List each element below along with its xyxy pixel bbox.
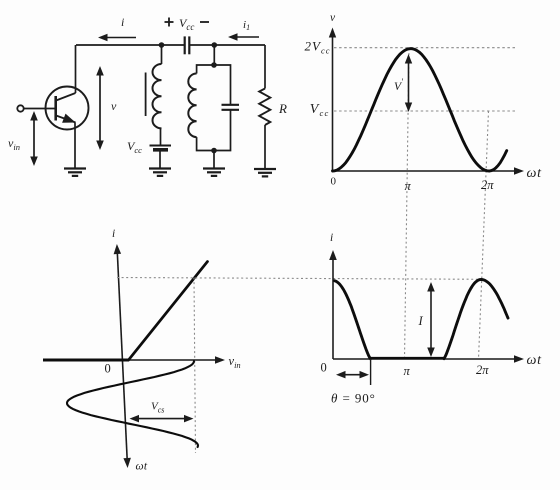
- wire choke to battery: [160, 128, 162, 145]
- dashed vertical pi line: [405, 49, 410, 360]
- axis v vertical: [332, 36, 334, 171]
- wire tank loop: [197, 65, 231, 105]
- transistor Q1: [46, 87, 89, 130]
- svg-text:i: i: [112, 228, 115, 240]
- arrow current i: [101, 37, 136, 39]
- current pulse left: [335, 281, 371, 359]
- wire tank top: [213, 45, 215, 65]
- svg-text:π: π: [404, 364, 411, 378]
- wire R branch: [264, 45, 266, 89]
- node dot A: [159, 42, 165, 48]
- input sinusoid vs wt: [67, 361, 198, 447]
- svg-text:i: i: [330, 232, 333, 244]
- ground tank: [203, 169, 225, 176]
- node dot tank bottom: [211, 148, 217, 154]
- ground R: [254, 169, 276, 176]
- axis i vertical (tilted): [117, 250, 127, 462]
- node dot B: [212, 42, 218, 48]
- current pulse right: [444, 280, 508, 359]
- svg-text:R: R: [278, 101, 287, 116]
- svg-text:0: 0: [105, 362, 111, 376]
- svg-text:v: v: [330, 12, 336, 24]
- svg-text:0: 0: [321, 361, 327, 375]
- dashed 2Vcc level: [334, 47, 516, 49]
- wire tank to ground: [213, 151, 215, 169]
- svg-text:ωt: ωt: [136, 461, 148, 473]
- svg-text:i: i: [121, 15, 124, 29]
- arrow I double: [430, 290, 432, 350]
- ground battery: [149, 169, 171, 176]
- svg-text:2π: 2π: [481, 178, 494, 192]
- arrow Vcs double: [137, 418, 186, 420]
- svg-text:0: 0: [331, 176, 337, 188]
- theta tick: [370, 359, 372, 385]
- core line: [145, 73, 147, 117]
- label +Vcc-: [165, 18, 210, 27]
- svg-text:θ = 90°: θ = 90°: [331, 391, 376, 406]
- wire emitter down: [74, 123, 76, 169]
- wire R to ground: [264, 125, 266, 169]
- svg-text:π: π: [405, 179, 412, 193]
- wire choke top: [161, 45, 163, 64]
- capacitor coupling: [185, 36, 190, 54]
- battery Vcc: [150, 145, 172, 147]
- ground emitter: [64, 169, 86, 176]
- dashed Vcs vertical: [194, 278, 196, 454]
- inductor RFC choke: [153, 64, 162, 128]
- axis vin horizontal: [43, 359, 218, 361]
- wire battery to ground: [159, 152, 161, 169]
- dashed vertical 2pi line: [479, 111, 489, 359]
- arrow theta double: [344, 374, 362, 376]
- input terminal: [17, 105, 23, 111]
- axis wt horizontal: [333, 170, 517, 172]
- dotted peak current level: [117, 278, 483, 280]
- axis wt down arrow: [123, 458, 130, 468]
- arrow V peak: [408, 62, 410, 105]
- capacitor tank C: [222, 105, 240, 110]
- axis wt2 horizontal: [333, 358, 516, 360]
- curve v = Vcc(1-cos wt): [333, 49, 507, 171]
- axis i2 vertical: [332, 258, 334, 359]
- resistor R: [259, 89, 270, 126]
- arrow current i1: [231, 36, 259, 38]
- svg-text:I: I: [418, 314, 424, 328]
- svg-text:ωt: ωt: [527, 166, 543, 181]
- wire base: [24, 108, 56, 110]
- arrow vin double: [33, 119, 35, 159]
- wire top rail: [76, 44, 184, 46]
- dashed Vcc level: [334, 110, 516, 112]
- svg-text:2π: 2π: [476, 363, 489, 377]
- svg-text:v: v: [111, 99, 117, 113]
- inductor tank L: [188, 74, 196, 138]
- wire collector up: [75, 45, 77, 93]
- svg-text:ωt: ωt: [527, 353, 543, 368]
- current zero flat: [370, 357, 444, 360]
- transfer characteristic line: [129, 262, 208, 361]
- node dot tank top: [211, 62, 217, 68]
- transfer characteristic cutoff flat: [43, 359, 129, 362]
- arrow v double: [99, 74, 101, 143]
